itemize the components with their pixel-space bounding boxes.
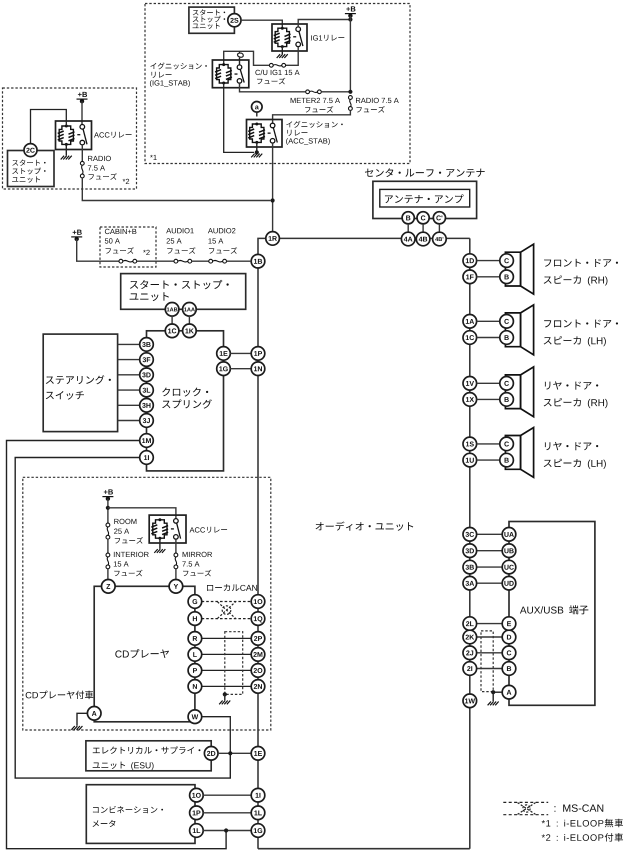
connector 1I (audio)	[251, 788, 265, 802]
wire +B down to fuses	[107, 499, 109, 523]
power +B node (ACC relay feed)	[77, 92, 88, 104]
wire 1A-C	[476, 320, 500, 322]
legend MS-CAN dashes top	[503, 801, 548, 803]
connector 3L	[140, 383, 154, 397]
wire 1M loop left	[7, 441, 227, 849]
connector 2D	[204, 747, 218, 761]
wire B-4A	[407, 224, 409, 233]
connector E (aux)	[502, 617, 516, 631]
connector UC (aux)	[502, 560, 516, 574]
connector 1B	[251, 254, 265, 268]
fuse METER2 7.5A	[306, 90, 322, 94]
connector N (CD)	[188, 680, 202, 694]
ground shield CD	[219, 701, 230, 705]
legend twist	[518, 803, 536, 815]
label speaker l2	[544, 336, 606, 346]
connector UA (aux)	[502, 528, 516, 542]
wire curl to IG1_STAB switch	[239, 58, 241, 65]
connector 3C (audio)	[463, 528, 477, 542]
label start-stop unit left line2	[12, 168, 45, 175]
wire 1P-1L	[203, 812, 251, 814]
connector 1N	[251, 362, 265, 376]
label combination meter l2	[93, 820, 116, 827]
label AUDIO1 l2	[167, 238, 182, 243]
connector 1U	[463, 453, 477, 467]
connector UD (aux)	[502, 576, 516, 590]
connector 2O (audio)	[251, 664, 265, 678]
start-stop unit box (left)	[8, 151, 55, 187]
label start-stop mid l2	[130, 292, 169, 301]
start-stop unit box (middle)	[121, 274, 246, 310]
relay ACC coil	[58, 125, 75, 146]
legend *1	[542, 819, 623, 828]
speaker 1A/1C icon	[505, 305, 533, 355]
label ACC relay 2	[190, 527, 228, 533]
legend MS-CAN dashes bottom	[503, 814, 548, 816]
connector 2J (audio)	[463, 646, 477, 660]
label *2 (left box)	[123, 179, 130, 184]
relay ACC_STAB coil	[248, 123, 265, 144]
connector 3B (audio)	[463, 560, 477, 574]
label start-stop mid l1	[130, 280, 229, 289]
twist local CAN	[218, 602, 236, 619]
label ignition relay IG1_STAB l1	[150, 63, 206, 70]
wire +B to ACC relay switch	[81, 101, 83, 124]
wire 1U-B	[476, 459, 500, 461]
connector 1L (meter)	[190, 824, 204, 838]
wire 1O-1I	[203, 794, 251, 796]
fuse RADIO 7.5A (left)	[80, 161, 84, 178]
wire 1F-B	[476, 276, 500, 278]
label steering switch l1	[46, 375, 111, 384]
connector 4B	[416, 232, 430, 246]
connector H (CD)	[188, 612, 202, 626]
label C/U IG1 fuse l2	[257, 78, 285, 85]
relay IG1_STAB (box)	[212, 60, 248, 88]
wire 3A-UD	[476, 582, 502, 584]
connector C spk	[500, 437, 514, 451]
junction coil grounds	[255, 150, 259, 154]
connector 1S	[463, 437, 477, 451]
speaker 1V/1X icon	[505, 367, 533, 417]
label ignition relay IG1_STAB l2	[151, 72, 171, 78]
label RADIO top fuse l1	[356, 98, 399, 103]
wire R-2P	[202, 637, 252, 639]
label ignition relay ACC_STAB l3	[286, 138, 330, 145]
connector 1P (meter)	[190, 806, 204, 820]
label start-stop unit left line1	[12, 159, 45, 165]
ground shield AUX	[488, 702, 499, 706]
label ROOM l3	[115, 537, 143, 544]
relay ACC_STAB (box)	[247, 120, 283, 148]
connector Z	[102, 580, 116, 594]
label CABIN+B l3	[106, 247, 134, 254]
label speaker l1	[545, 381, 598, 389]
label RADIO (left fuse) l1	[88, 156, 111, 161]
connector 3D (audio)	[463, 544, 477, 558]
wire INTERIOR fuse to Z	[107, 569, 109, 580]
label MIRROR l3	[183, 570, 211, 577]
wire 2K-D	[476, 636, 502, 638]
wire 1AB-1C	[171, 316, 173, 324]
relay ACC-2 switch	[171, 519, 181, 540]
wire +B to fuse row	[77, 239, 119, 261]
connector UB (aux)	[502, 544, 516, 558]
relay IG1 coil	[274, 27, 291, 48]
combination meter box	[86, 785, 195, 844]
start-stop unit box (top)	[189, 7, 235, 33]
label start-stop unit left line3	[12, 176, 40, 182]
connector 1C	[463, 331, 477, 345]
fuse MIRROR 7.5A	[174, 553, 178, 569]
wire C/U IG1 fuse to IG1_STAB relay	[224, 51, 270, 65]
connector 3D	[140, 368, 154, 382]
label start-stop top l3	[193, 23, 220, 29]
wire 2I-B	[476, 668, 502, 670]
connector C spk	[500, 377, 514, 391]
wire steering-3B	[118, 343, 140, 345]
wire steering-3D	[118, 374, 140, 376]
wire steering-3L	[118, 389, 140, 391]
label INTERIOR l2	[114, 561, 129, 566]
wire 1AA-1K	[188, 316, 190, 324]
connector 1C	[165, 324, 179, 338]
relay ACC-2 (box)	[149, 515, 186, 543]
ground ACC-2 coil	[154, 549, 165, 553]
legend *2	[542, 833, 623, 842]
relay ACC-2 coil	[151, 518, 168, 539]
label INTERIOR l3	[114, 570, 142, 577]
wire ACC switch to RADIO fuse	[81, 145, 83, 162]
power +B node (top right)	[345, 6, 356, 18]
label ROOM l2	[114, 529, 129, 534]
relay ACC_STAB switch	[268, 123, 278, 143]
CD player box	[94, 586, 195, 722]
wire +B branch to ACC relay 2	[108, 508, 176, 519]
wire A to ground	[77, 713, 88, 726]
wire 3B-UC	[476, 566, 502, 568]
label ESU l1	[93, 746, 201, 754]
label start-stop top l2	[193, 16, 225, 23]
connector 2L (audio)	[463, 617, 477, 631]
audio unit left edge	[257, 268, 259, 849]
ground IG1 coil	[277, 54, 288, 58]
power +B node (CD box)	[102, 489, 113, 501]
coil curl IG1_STAB switch feed	[238, 51, 244, 57]
wire W to ESU junction	[202, 717, 231, 753]
connector P (CD)	[188, 664, 202, 678]
label METER2 fuse l1	[291, 98, 340, 103]
connector B spk	[500, 453, 514, 467]
wire node a to ACC_STAB coil	[256, 112, 258, 116]
connector C (antenna)	[417, 212, 429, 224]
wire 3D-UB	[476, 550, 502, 552]
legend MS-CAN text	[554, 804, 603, 812]
label AUDIO2 l3	[209, 247, 237, 254]
wire L-2M	[202, 653, 252, 655]
label CABIN+B l1	[105, 229, 137, 234]
label clock spring l2	[162, 399, 212, 408]
connector 1E (clock spring)	[217, 347, 231, 361]
label AUX/USB terminal	[520, 605, 588, 614]
label ignition relay IG1_STAB l3	[150, 80, 190, 87]
wire ACC coil top to node 2C	[31, 110, 67, 144]
node (a)	[251, 102, 262, 113]
wire N-2N	[202, 685, 252, 687]
junction +B branch to ACC relay 2	[106, 506, 110, 510]
steering switch box	[43, 334, 117, 432]
wire 2L-E	[476, 623, 502, 625]
connector 4A	[401, 232, 415, 246]
dashed option box CABIN+B fuse	[100, 227, 156, 267]
wire G dashed CAN	[202, 601, 252, 603]
connector C spk	[500, 254, 514, 268]
fuse C/U IG1 15A	[269, 63, 285, 67]
speaker 1D/1F icon	[505, 244, 533, 294]
wire shield drain AUX down	[492, 692, 494, 701]
label speaker l2	[544, 459, 606, 469]
connector 1E (audio)	[251, 747, 265, 761]
speaker 1S/1U icon	[505, 428, 533, 478]
AUX/USB terminal box	[509, 522, 595, 706]
shield box CD lines	[225, 632, 243, 695]
wire 1I loop left	[15, 458, 230, 779]
wire +B rail down to METER2 row	[349, 16, 351, 92]
dashed option box *1 (ignition relays)	[145, 4, 410, 164]
ESU box	[86, 741, 211, 771]
wire 1L-1G	[203, 830, 251, 832]
junction shield drain CD	[223, 692, 227, 696]
label METER2 fuse l2	[305, 106, 333, 113]
connector B spk	[500, 331, 514, 345]
connector 2C	[24, 144, 37, 157]
connector 2K (audio)	[463, 630, 477, 644]
fuse AUDIO1 25A	[174, 259, 192, 263]
wire C'-4B'	[438, 224, 440, 233]
wire 2D-1E	[218, 752, 252, 754]
wire MIRROR fuse to Y	[175, 569, 177, 580]
label AUDIO2 l1	[208, 228, 236, 233]
label antenna amp	[385, 194, 464, 203]
junction loop1 on 1L-1G wire	[224, 828, 228, 832]
wire 2J-C	[476, 652, 502, 654]
wire 1G-1N	[230, 368, 251, 370]
junction shield drain AUX	[491, 690, 495, 694]
audio unit left edge upper	[258, 238, 266, 254]
connector B (antenna)	[402, 212, 414, 224]
label ignition relay ACC_STAB l1	[286, 121, 342, 128]
connector 1A	[463, 315, 477, 329]
connector 1G (audio)	[251, 824, 265, 838]
antenna amp box	[380, 189, 470, 207]
connector 1O (audio)	[251, 595, 265, 609]
label AUDIO1 l3	[167, 247, 195, 254]
label MIRROR l1	[183, 552, 212, 557]
wire steering-3F	[118, 359, 140, 361]
connector Y	[169, 580, 183, 594]
wire ACC_STAB coil to common ground	[256, 142, 258, 152]
audio unit top edge	[279, 237, 470, 239]
wire A to shield drain	[493, 691, 502, 693]
connector 1P	[251, 347, 265, 361]
clock spring box	[147, 331, 224, 471]
label CD player	[115, 649, 169, 658]
wire RADIO fuse to ACC_STAB switch	[273, 110, 351, 123]
label RADIO top fuse l2	[356, 106, 384, 113]
connector C spk	[500, 315, 514, 329]
connector A (aux)	[502, 685, 516, 699]
connector W (CD)	[188, 710, 202, 724]
connector 1K	[183, 324, 197, 338]
wire AUDIO2 to 1B	[227, 260, 252, 262]
label *1	[150, 155, 157, 160]
connector B (aux)	[502, 662, 516, 676]
relay IG1 (box)	[272, 24, 307, 51]
power +B node (cabin row)	[71, 230, 82, 242]
wire C-4B	[422, 224, 424, 233]
wire IG1_STAB coil to common ground	[224, 83, 254, 152]
relay ACC (box)	[56, 121, 92, 150]
label local CAN	[207, 584, 257, 591]
label *2 (cabin fuse)	[143, 250, 150, 255]
relay ACC switch	[77, 125, 87, 145]
label INTERIOR l1	[114, 552, 149, 557]
connector 1O (meter)	[190, 788, 204, 802]
junction ACC feed/1R	[271, 198, 275, 202]
junction +B rail top	[348, 17, 352, 21]
label RADIO (left fuse) l3	[89, 173, 117, 180]
wire 1S-C	[476, 443, 500, 445]
label RADIO (left fuse) l2	[88, 165, 105, 170]
connector G (CD)	[188, 595, 202, 609]
connector B spk	[500, 393, 514, 407]
wire H dashed CAN	[202, 618, 252, 620]
label ACC relay	[94, 132, 132, 138]
label center roof antenna	[365, 168, 485, 177]
connector 2I (audio)	[463, 662, 477, 676]
connector 1I (clock spring)	[140, 451, 154, 465]
fuse INTERIOR 15A	[106, 553, 110, 569]
label speaker l2	[544, 398, 608, 408]
connector R (CD)	[188, 632, 202, 646]
center roof antenna box	[373, 181, 477, 218]
label ROOM l1	[114, 519, 136, 524]
connector C (aux)	[502, 646, 516, 660]
junction METER2/RADIO fuses	[348, 90, 352, 94]
wire ROOM to INTERIOR fuse	[107, 539, 109, 553]
connector 3A (audio)	[463, 576, 477, 590]
dashed box CD player option	[23, 477, 271, 730]
connector 1F	[463, 270, 477, 284]
label CABIN+B l2	[105, 238, 120, 243]
wire 1C-B	[476, 337, 500, 339]
wire IG1_STAB switch to METER2 fuse	[240, 83, 306, 92]
label ESU l2	[93, 762, 154, 770]
connector 3J	[140, 414, 154, 428]
connector 1L (audio)	[251, 806, 265, 820]
connector 1M	[140, 434, 154, 448]
wire METER2 fuse to +B rail	[321, 91, 350, 93]
label C/U IG1 fuse l1	[255, 70, 299, 76]
label MIRROR l2	[182, 561, 199, 566]
connector C' (antenna)	[433, 212, 445, 224]
wire RADIO fuse down to junction	[82, 178, 270, 201]
wire IG1 switch to +B rail	[298, 20, 350, 27]
connector 1D	[463, 254, 477, 268]
label speaker l1	[544, 320, 618, 328]
connector 1W (audio)	[463, 694, 477, 708]
label combination meter l1	[93, 806, 163, 813]
wire 3C-UA	[476, 533, 502, 535]
label speaker l1	[545, 442, 598, 450]
wire shield drain CD	[224, 694, 226, 700]
label speaker l1	[544, 259, 618, 267]
label speaker l2	[544, 275, 608, 285]
wire 1X-B	[476, 398, 500, 400]
connector 2M (audio)	[251, 648, 265, 662]
wire 1E-1P	[230, 352, 251, 354]
connector 1V	[463, 377, 477, 391]
junction W/loop on 2D-1E wire	[228, 751, 232, 755]
wire 1V-C	[476, 382, 500, 384]
connector 1AA	[183, 303, 197, 317]
connector A (CD)	[87, 707, 101, 721]
label IG1 relay	[311, 35, 344, 41]
wire 1D-C	[476, 260, 500, 262]
wire 2S to IG1 relay coil	[241, 20, 282, 28]
audio unit right edge	[469, 238, 471, 848]
ground A (CD player)	[71, 726, 82, 730]
wire steering-3J	[118, 420, 140, 422]
wire ACC coil to ground	[65, 145, 67, 156]
wire IG1 switch to C/U IG1 fuse	[286, 47, 299, 66]
connector 2S	[228, 14, 241, 27]
relay IG1 switch	[293, 27, 303, 47]
label ignition relay ACC_STAB l2	[287, 130, 307, 136]
connector 3F	[140, 353, 154, 367]
wire P-2O	[202, 669, 252, 671]
connector 2P (audio)	[251, 632, 265, 646]
relay IG1_STAB coil	[215, 63, 232, 84]
connector 2N (audio)	[251, 680, 265, 694]
connector 1AB	[165, 303, 179, 317]
ground ACC coil	[61, 156, 72, 160]
fuse AUDIO2 15A	[209, 259, 227, 263]
relay IG1_STAB switch	[235, 65, 245, 83]
wire ACC_STAB switch down to 1R	[272, 143, 274, 232]
wire IG1 coil to ground	[281, 47, 283, 54]
wire steering-3H	[118, 404, 140, 406]
wire ACC-2 coil to ground	[159, 538, 161, 549]
connector 1G (clock spring)	[217, 362, 231, 376]
connector D (aux)	[502, 630, 516, 644]
label AUDIO1 l1	[166, 228, 194, 233]
connector 1Q (audio)	[251, 612, 265, 626]
connector 4B'	[433, 232, 447, 246]
shield box AUX lines	[481, 631, 493, 692]
connector L (CD)	[188, 648, 202, 662]
ground STAB coils	[251, 154, 262, 158]
connector 3H	[140, 399, 154, 413]
fuse CABIN+B 50A	[119, 259, 137, 263]
label audio unit	[316, 521, 414, 530]
fuse RADIO 7.5A (top)	[349, 96, 353, 111]
connector B spk	[500, 270, 514, 284]
connector 1R	[266, 232, 280, 246]
label start-stop top l1	[193, 9, 225, 15]
wire ACC-2 switch to MIRROR fuse	[175, 539, 177, 553]
label CD player variant	[26, 691, 94, 700]
